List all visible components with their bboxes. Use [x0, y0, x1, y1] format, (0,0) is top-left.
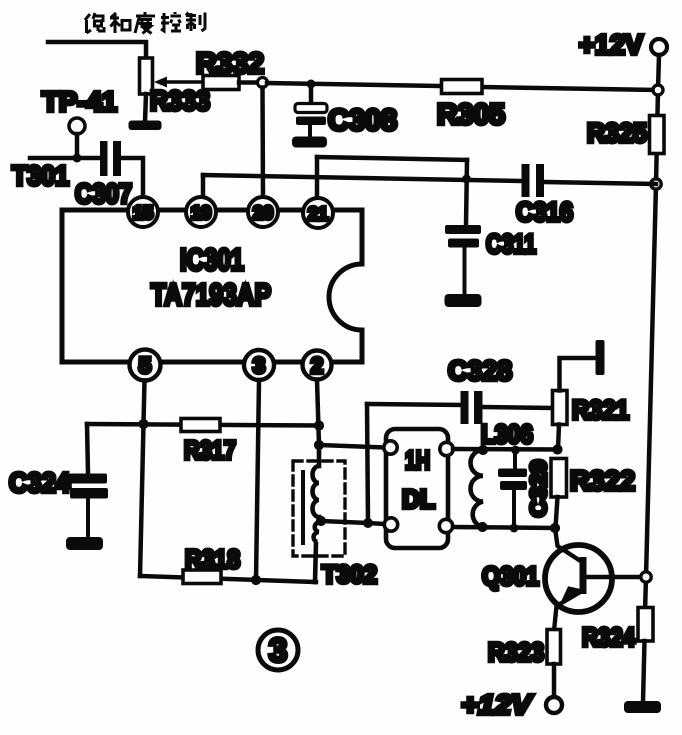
svg-text:R325: R325 [587, 118, 647, 148]
wire R321 top to connector [560, 358, 597, 391]
terminal DL top-right [440, 442, 453, 455]
svg-text:19: 19 [191, 203, 211, 223]
ground (below C311) [445, 294, 482, 307]
svg-text:R317: R317 [184, 435, 236, 465]
pin 20 [248, 197, 278, 227]
svg-text:C308: C308 [328, 104, 397, 137]
delay line block 1H DL [386, 429, 448, 548]
node junction dot C329 top [511, 446, 520, 455]
resistor R332 [203, 76, 239, 90]
svg-text:TA7193AP: TA7193AP [151, 277, 271, 312]
potentiometer R333 body [140, 58, 153, 94]
wire L306 top row [453, 447, 557, 452]
pin 2 [303, 351, 332, 380]
pin 5 [130, 350, 161, 381]
wire pin3 riser [256, 381, 259, 581]
svg-text:15: 15 [133, 203, 153, 223]
transformer T302 winding [313, 445, 320, 582]
wire T302 tap to DL bottom-left [321, 521, 384, 524]
wire R332 to junction circle [239, 80, 257, 85]
wire C324 lower stem [86, 498, 90, 538]
resistor R317 [181, 419, 220, 432]
resistor R322 [551, 459, 567, 498]
inductor L306 [470, 450, 483, 527]
svg-text:T301: T301 [12, 160, 69, 191]
wire C328 to R321 [483, 407, 552, 408]
svg-text:R333: R333 [150, 85, 210, 116]
wire R323 to +12V terminal [552, 664, 557, 697]
ground (below C324) [66, 537, 103, 550]
node junction dot rail/R305 [653, 85, 663, 95]
wire R321 bottom [558, 425, 559, 450]
svg-text:T302: T302 [322, 561, 377, 589]
test point TP-41 circle [69, 118, 85, 134]
wire L306 bottom row [453, 527, 555, 528]
terminal DL top-left [384, 441, 397, 454]
svg-text:5: 5 [139, 353, 151, 378]
wire pin21 net (upper short line) [317, 157, 467, 160]
node junction dot C311/pin19 net [462, 175, 471, 184]
svg-text:C316: C316 [516, 197, 573, 227]
ground (bottom right) [624, 701, 661, 713]
wire C324 branch vertical [87, 424, 88, 474]
wire R324 to ground [643, 641, 645, 702]
resistor R321 [553, 391, 568, 425]
resistor R325 [650, 116, 665, 154]
svg-text:R322: R322 [570, 465, 635, 496]
pin 15 [128, 197, 158, 227]
transistor Q301 [545, 528, 646, 631]
node junction dot R321/R322 [552, 444, 562, 454]
wire row-A (R317 net) [87, 424, 319, 426]
svg-text:+12V: +12V [461, 689, 533, 720]
capacitor C316 [522, 164, 545, 197]
wire main +12V feed line (pin20 net to right rail) [267, 83, 658, 90]
wire pin21 riser [315, 157, 320, 198]
wire pin19 net horizontal [203, 175, 520, 181]
node junction dot rail/C316 [651, 179, 661, 189]
wire R333 bottom [145, 94, 146, 122]
power terminal +12V bottom circle [546, 697, 562, 713]
wire saturation-control to R333 top [48, 42, 146, 59]
capacitor C329 [498, 450, 527, 528]
wire C307 to pin15 riser [121, 158, 143, 198]
resistor R305 [442, 80, 483, 94]
transformer T302 core bar [301, 472, 305, 543]
resistor R324 [638, 608, 653, 642]
node junction dot base/rail [641, 572, 651, 582]
svg-text:3: 3 [269, 632, 287, 669]
svg-text:3: 3 [253, 353, 265, 378]
wire R322 bottom [556, 497, 558, 528]
capacitor C308 [295, 104, 327, 126]
resistor R318 [183, 570, 221, 584]
svg-text:L306: L306 [481, 419, 533, 449]
node junction dot C328-branch/DL-BL [363, 518, 373, 528]
svg-text:TP-41: TP-41 [42, 86, 117, 117]
node junction dot T302 tap [316, 516, 326, 526]
svg-text:R318: R318 [185, 544, 240, 574]
node junction circle (pin20 net) [258, 78, 268, 88]
wire T302-top to DL top-left [319, 445, 384, 448]
wire pin20 riser [260, 88, 265, 199]
svg-text:C328: C328 [448, 355, 512, 386]
svg-text:C329: C329 [526, 460, 551, 517]
capacitor C311 [445, 225, 481, 248]
wire C311 lower stem [463, 247, 467, 295]
node junction dot L306 bottom [477, 522, 487, 532]
wire C328 branch vertical [367, 404, 368, 523]
svg-text:DL: DL [402, 484, 435, 514]
svg-text:Q301: Q301 [482, 561, 539, 591]
node junction dot collector [550, 523, 560, 533]
wire T301 horizontal [30, 156, 100, 161]
power terminal +12V top circle [651, 39, 667, 55]
wire pin19 riser [201, 175, 206, 198]
resistor R323 [547, 630, 561, 665]
wire C311 riser [466, 160, 467, 226]
capacitor C324 [69, 474, 108, 499]
terminal DL bottom-left [384, 518, 397, 531]
svg-text:20: 20 [253, 203, 273, 223]
pin 3 [244, 350, 274, 380]
ground (below R333) [129, 121, 162, 131]
svg-text:+12V: +12V [579, 29, 643, 60]
label 饱和度控制 (saturation control) [85, 12, 205, 34]
graphic sheet number circled 3 [258, 630, 298, 670]
node junction dot pin5/row-A [138, 419, 148, 429]
svg-text:R305: R305 [437, 99, 505, 131]
transformer T302 dashed box [293, 461, 345, 556]
svg-text:2: 2 [311, 353, 323, 378]
terminal DL bottom-right [439, 519, 452, 532]
wire pin2 riser [317, 380, 319, 445]
capacitor C328 [461, 391, 483, 424]
svg-text:R324: R324 [582, 622, 635, 652]
wire TP-41 stem [75, 134, 80, 158]
node junction dot L306 top [478, 445, 488, 455]
off-page connector bar (above R321) [596, 340, 605, 375]
svg-text:C324: C324 [9, 467, 70, 498]
svg-text:C307: C307 [75, 178, 132, 209]
wire pin5 riser [144, 381, 145, 425]
wiper arrow into R333 [154, 77, 203, 88]
node junction dot C329 bottom [510, 524, 519, 533]
wire C308 stem [309, 84, 314, 104]
svg-text:1H: 1H [405, 445, 430, 475]
wire row-B (R318 net) [140, 576, 316, 582]
svg-text:IC301: IC301 [180, 242, 244, 277]
svg-text:21: 21 [308, 204, 328, 224]
wire C308 lower stem [308, 125, 312, 137]
pin 19 [186, 197, 216, 227]
capacitor C307 [100, 141, 121, 176]
svg-text:C311: C311 [486, 229, 536, 259]
svg-text:R321: R321 [572, 395, 629, 425]
wire C328 row horizontal [367, 404, 462, 405]
ground (below C308) [292, 137, 327, 148]
node junction dot TP-41 [73, 154, 82, 163]
wire right rail [645, 55, 659, 612]
svg-text:R323: R323 [488, 637, 544, 667]
wire left loop vertical (pin5 to R318 row) [140, 424, 144, 576]
op-amp/IC U-block IC301 TA7193AP outline with right notch [62, 210, 362, 362]
node junction dot pin3/row-B [251, 575, 261, 585]
node junction dot row-A/pin2 riser [314, 420, 324, 430]
node junction dot pin2/T302 top [314, 440, 324, 450]
pin 21 [303, 198, 333, 228]
node junction dot C308 tap [307, 80, 316, 89]
